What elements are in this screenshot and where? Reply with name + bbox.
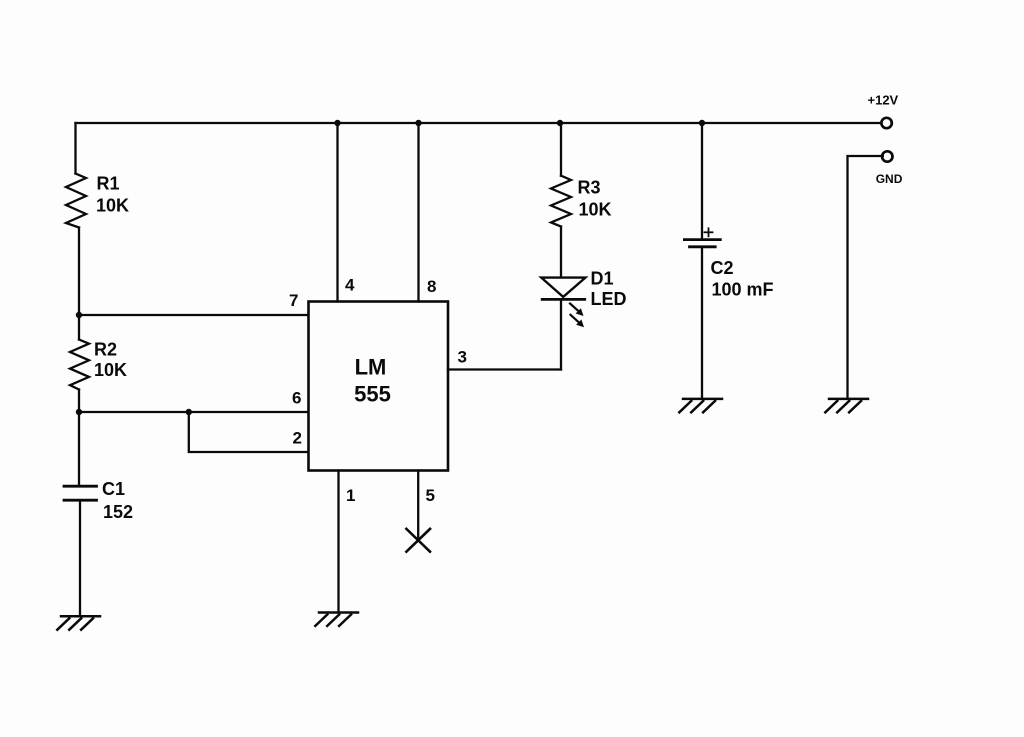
- svg-text:R3: R3: [578, 178, 601, 198]
- wire GND terminal to ground: [848, 156, 883, 399]
- svg-text:GND: GND: [876, 172, 903, 186]
- no-connect X on pin 5: [406, 529, 430, 552]
- ground (GND terminal): [825, 399, 868, 412]
- wire C2 to ground: [701, 248, 703, 399]
- wire R3 branch top (rail to R3): [560, 123, 562, 176]
- node junction pin4/rail: [334, 120, 340, 126]
- diode D1 LED triangle: [541, 278, 585, 297]
- svg-text:R1: R1: [97, 174, 120, 194]
- wire C2 branch top (rail to C2): [701, 123, 703, 238]
- node junction pin8/rail: [415, 120, 421, 126]
- svg-text:2: 2: [293, 429, 302, 448]
- resistor R2: [70, 340, 89, 390]
- wire pin 4 to rail: [336, 123, 338, 302]
- wire pin 2 stub: [189, 412, 309, 452]
- node junction R1/R2/pin7: [76, 312, 82, 318]
- wire pin 1 to ground: [337, 471, 339, 613]
- svg-text:LM: LM: [355, 355, 387, 380]
- wire R3 to LED: [560, 227, 562, 278]
- svg-text:LED: LED: [591, 289, 627, 309]
- svg-text:C1: C1: [102, 479, 125, 499]
- terminal +12V: [881, 118, 891, 128]
- svg-text:10K: 10K: [94, 360, 127, 380]
- capacitor C2: [684, 238, 720, 241]
- resistor R3: [551, 176, 571, 227]
- svg-text:8: 8: [427, 277, 436, 296]
- capacitor C2 plus sign: [705, 228, 713, 236]
- ground (pin 1): [315, 613, 358, 626]
- svg-text:1: 1: [346, 486, 355, 505]
- wire pin 7 to left rail: [79, 314, 309, 316]
- wire LED to pin3 wire: [560, 299, 562, 369]
- wire left rail upper (rail to R1): [74, 123, 76, 174]
- svg-text:555: 555: [354, 382, 391, 407]
- wire R2 to C1: [78, 390, 80, 485]
- svg-text:7: 7: [289, 291, 298, 310]
- LED emission arrow 2: [571, 315, 585, 328]
- wire pin 3 to LED branch: [448, 368, 561, 370]
- svg-text:D1: D1: [591, 269, 614, 289]
- terminal GND: [882, 151, 892, 161]
- capacitor C1: [64, 485, 97, 488]
- diode D1 cathode bar: [542, 298, 585, 301]
- svg-text:+12V: +12V: [868, 93, 899, 108]
- op-amp U1 LM555 box: [309, 302, 449, 471]
- resistor R1: [66, 174, 86, 228]
- node junction C2/rail: [699, 120, 705, 126]
- node junction R3/rail: [557, 120, 563, 126]
- wire pin 6 to left rail: [79, 411, 309, 413]
- wire C1 to ground: [79, 502, 81, 617]
- wire top supply rail: [76, 122, 882, 124]
- svg-text:10K: 10K: [96, 196, 129, 216]
- svg-text:10K: 10K: [579, 200, 612, 220]
- svg-text:C2: C2: [711, 258, 734, 278]
- svg-text:100 mF: 100 mF: [712, 280, 774, 300]
- wire left rail R1 to R2: [78, 228, 80, 340]
- ground (C1): [57, 616, 100, 629]
- wire pin 5 stub: [417, 471, 419, 541]
- node junction R2/C1/pin6: [76, 409, 82, 415]
- node junction pin2 stub: [186, 409, 192, 415]
- svg-text:4: 4: [345, 276, 355, 295]
- svg-text:152: 152: [103, 502, 133, 522]
- svg-text:3: 3: [458, 348, 467, 367]
- ground (C2): [679, 399, 722, 412]
- svg-text:6: 6: [292, 389, 301, 408]
- wire pin 8 to rail: [417, 123, 419, 302]
- svg-text:5: 5: [426, 486, 435, 505]
- LED emission arrow 1: [570, 304, 584, 317]
- svg-text:R2: R2: [94, 340, 117, 360]
